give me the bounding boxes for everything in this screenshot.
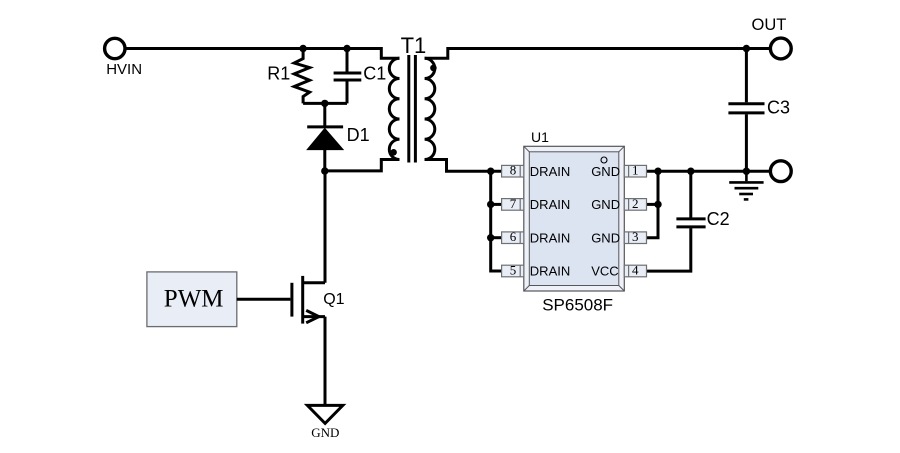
svg-text:3: 3 [632, 229, 639, 244]
pin 7 box [502, 196, 524, 211]
svg-text:DRAIN: DRAIN [530, 164, 570, 179]
wire secondary top lead and top rail right [425, 49, 770, 59]
pin 4 box [624, 262, 646, 277]
svg-text:C1: C1 [363, 64, 386, 84]
wire PWM to gate [237, 298, 291, 301]
capacitor C2 [647, 171, 706, 271]
node right pin bus pin1 [654, 168, 661, 175]
svg-text:SP6508F: SP6508F [542, 296, 613, 315]
node right pin bus pin2 [654, 201, 661, 208]
pin 1 box [624, 163, 646, 178]
node left pin bus pin7 [487, 201, 494, 208]
wire snubber bottom (R1 bottom to C1 bottom) [303, 102, 347, 105]
wire source to ground [324, 317, 327, 406]
svg-text:GND: GND [311, 425, 339, 440]
terminal HVIN [105, 38, 125, 58]
transformer T1 primary winding [389, 58, 399, 159]
diode D1 [307, 103, 343, 171]
resistor R1 [294, 49, 309, 104]
svg-text:OUT: OUT [752, 16, 787, 34]
wire right pin bus [647, 171, 658, 238]
pin 3 box [624, 229, 646, 244]
terminal output return [770, 161, 791, 182]
svg-text:GND: GND [591, 230, 620, 245]
transformer T1 primary phase dot [390, 149, 397, 156]
wire drain to switch node [324, 171, 327, 283]
capacitor C1 [334, 49, 362, 104]
node switch node junction [321, 167, 328, 174]
wire pin7 stub [491, 203, 502, 206]
svg-text:D1: D1 [347, 125, 370, 145]
svg-text:T1: T1 [401, 33, 427, 58]
svg-text:R1: R1 [267, 64, 290, 84]
node C2 top junction [687, 168, 694, 175]
pin 1 marker circle [601, 157, 607, 163]
node snubber bottom junction [321, 100, 328, 107]
svg-text:5: 5 [510, 262, 517, 277]
svg-text:8: 8 [510, 163, 517, 178]
svg-text:1: 1 [632, 163, 639, 178]
node OUT rail junction [743, 45, 750, 52]
op-amp U1 body (SP6508F IC) [524, 146, 625, 291]
svg-text:DRAIN: DRAIN [530, 197, 570, 212]
svg-text:4: 4 [632, 262, 639, 277]
pin 5 box [502, 262, 524, 277]
svg-text:C3: C3 [767, 97, 790, 117]
transformer T1 core [409, 55, 416, 163]
PWM block [147, 272, 237, 327]
svg-text:GND: GND [591, 197, 620, 212]
pin 8 box [502, 163, 524, 178]
node C1 top junction [343, 45, 350, 52]
pin 6 box [502, 229, 524, 244]
wire ground rail (pin1 to terminal) [647, 170, 770, 173]
svg-text:GND: GND [591, 164, 620, 179]
terminal OUT [770, 38, 791, 59]
node left pin bus pin6 [487, 234, 494, 241]
svg-text:7: 7 [510, 196, 517, 211]
svg-text:C2: C2 [707, 209, 730, 229]
svg-text:U1: U1 [531, 129, 549, 145]
node ground rail at C3 [743, 168, 750, 175]
wire left pin bus [491, 171, 502, 271]
svg-text:PWM: PWM [164, 286, 224, 313]
wire transformer primary bottom lead [325, 160, 400, 171]
svg-text:VCC: VCC [591, 264, 618, 279]
wire pin6 stub [491, 236, 502, 239]
wire secondary bottom lead [425, 160, 502, 172]
svg-text:DRAIN: DRAIN [530, 264, 570, 279]
transistor Q1 [292, 276, 325, 324]
ground GND triangle [307, 405, 342, 423]
wire top rail left (HVIN to transformer primary) [126, 49, 400, 59]
transformer T1 secondary phase dot [430, 65, 437, 72]
svg-text:HVIN: HVIN [106, 61, 142, 78]
svg-text:6: 6 [510, 229, 517, 244]
transformer T1 secondary winding [425, 58, 435, 159]
wire pin2 stub [647, 203, 658, 206]
capacitor C3 [728, 49, 764, 172]
svg-text:Q1: Q1 [323, 291, 344, 308]
node left pin bus pin8 [487, 168, 494, 175]
ground earth symbol [729, 171, 763, 199]
node R1 top junction [299, 45, 306, 52]
svg-text:2: 2 [632, 196, 639, 211]
svg-text:DRAIN: DRAIN [530, 230, 570, 245]
pin 2 box [624, 196, 646, 211]
